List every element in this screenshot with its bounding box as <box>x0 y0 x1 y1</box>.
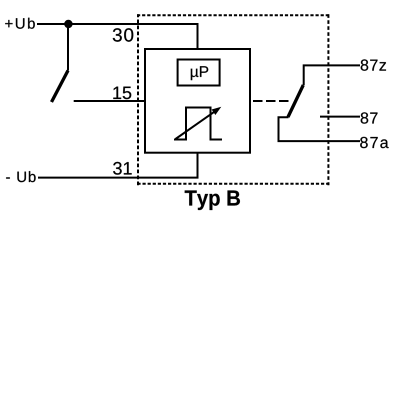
relay contact blade <box>288 85 303 117</box>
label -Ub <box>6 171 35 182</box>
switch S wire <box>67 24 69 71</box>
wire terminal 87 <box>320 116 360 118</box>
microprocessor box <box>178 60 220 86</box>
label Typ B <box>185 191 240 211</box>
wire +Ub to terminal 30 <box>37 24 198 49</box>
label 15 <box>113 87 131 100</box>
label 87a <box>360 137 388 148</box>
wire terminal 15 <box>74 100 146 102</box>
wire terminal 31 <box>38 152 198 178</box>
label µP <box>191 66 208 80</box>
switch S blade <box>52 71 69 103</box>
wire common pole to 87a <box>279 117 361 141</box>
threshold symbol step pulse <box>174 108 222 140</box>
label 87z <box>361 59 386 70</box>
label 87 <box>361 112 378 123</box>
threshold symbol adjust arrow <box>176 111 216 139</box>
label +Ub <box>5 18 35 29</box>
node junction dot <box>64 20 72 28</box>
relay outline dashed box <box>137 14 329 185</box>
wire terminal 87z <box>304 65 360 85</box>
label 31 <box>113 162 131 175</box>
label 30 <box>113 28 133 41</box>
mechanical link dashed <box>253 100 292 102</box>
control unit box U1 <box>145 49 250 153</box>
